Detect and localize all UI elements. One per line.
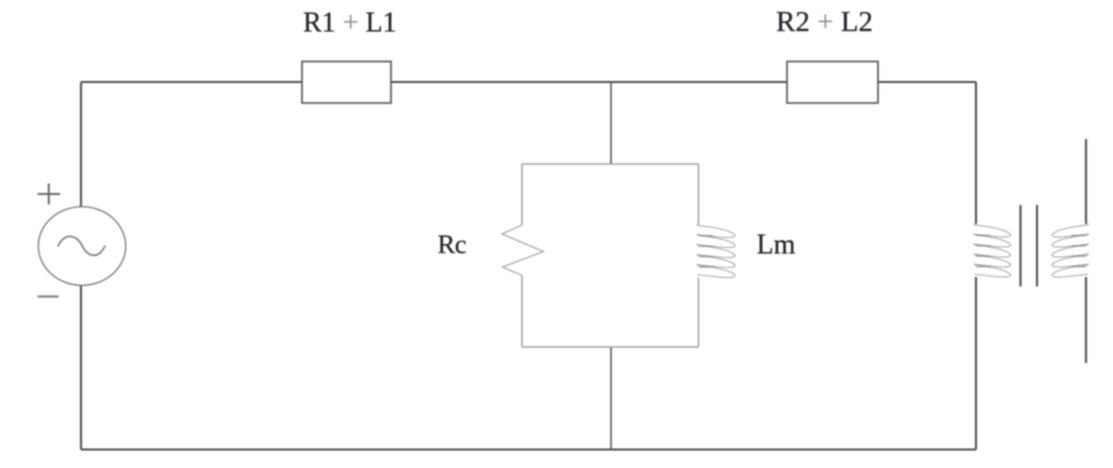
svg-text:Rc: Rc: [438, 229, 467, 259]
svg-text:R2 + L2: R2 + L2: [776, 6, 873, 38]
svg-text:R1 + L1: R1 + L1: [303, 8, 397, 39]
svg-text:Lm: Lm: [757, 230, 796, 261]
